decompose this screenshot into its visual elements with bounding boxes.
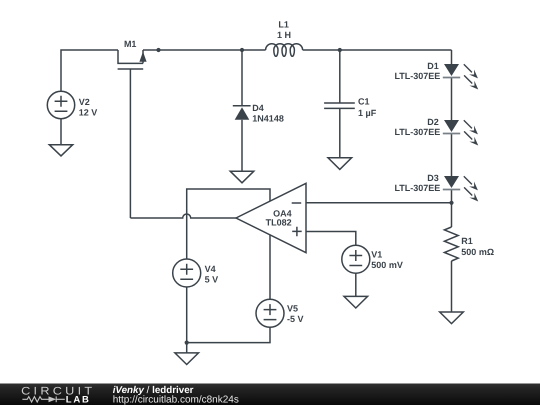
svg-text:LTL-307EE: LTL-307EE (394, 71, 440, 81)
svg-text:LTL-307EE: LTL-307EE (394, 127, 440, 137)
svg-text:http://circuitlab.com/c8nk24s: http://circuitlab.com/c8nk24s (113, 395, 239, 405)
svg-text:TL082: TL082 (266, 217, 292, 227)
svg-text:1N4148: 1N4148 (252, 114, 284, 124)
svg-text:LAB: LAB (66, 394, 91, 405)
svg-text:1 H: 1 H (277, 30, 291, 40)
svg-text:12 V: 12 V (79, 107, 98, 117)
svg-text:V2: V2 (79, 97, 90, 107)
svg-text:500 mΩ: 500 mΩ (461, 247, 494, 257)
svg-text:D3: D3 (427, 173, 439, 183)
svg-text:R1: R1 (461, 236, 473, 246)
svg-text:D2: D2 (427, 117, 439, 127)
svg-text:L1: L1 (278, 20, 289, 30)
svg-text:C1: C1 (358, 97, 370, 107)
svg-text:D1: D1 (427, 61, 439, 71)
svg-text:5 V: 5 V (205, 275, 219, 285)
svg-text:V5: V5 (287, 304, 298, 314)
svg-text:LTL-307EE: LTL-307EE (394, 183, 440, 193)
svg-text:V4: V4 (205, 264, 216, 274)
svg-text:-5 V: -5 V (287, 314, 304, 324)
svg-text:1 µF: 1 µF (358, 108, 377, 118)
svg-text:M1: M1 (124, 39, 137, 49)
svg-text:D4: D4 (252, 103, 264, 113)
svg-text:V1: V1 (371, 249, 382, 259)
svg-text:500 mV: 500 mV (371, 260, 403, 270)
